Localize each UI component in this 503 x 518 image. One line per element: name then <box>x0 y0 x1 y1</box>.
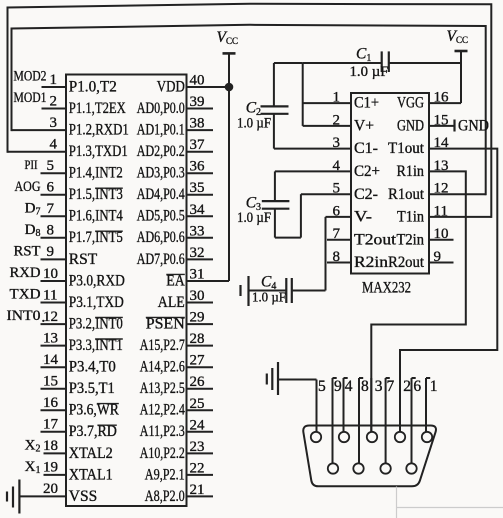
svg-text:P3.0,RXD: P3.0,RXD <box>69 272 125 289</box>
wire U2 pin12 R1out stub to rail <box>429 193 486 195</box>
junction dot VDD-Vcc <box>225 83 234 92</box>
svg-text:7: 7 <box>333 226 341 242</box>
U2 left label R2in <box>354 254 388 271</box>
svg-text:13: 13 <box>43 330 58 346</box>
U2 right label R1out <box>388 186 425 203</box>
U2 pin 1 number <box>333 90 341 106</box>
svg-text:8: 8 <box>47 223 55 239</box>
wire U2 pin13 R1in to DB9 pin3 <box>371 171 466 431</box>
U2 pin 2 number <box>333 112 341 128</box>
U1 pin 36 wire+label <box>187 159 214 175</box>
power Vcc (right) symbol <box>447 28 468 51</box>
J1 pin 2 wire+label <box>400 378 411 432</box>
ground (VSS) <box>7 480 19 514</box>
svg-text:R1in: R1in <box>397 163 425 180</box>
svg-text:14: 14 <box>43 352 59 368</box>
svg-text:6: 6 <box>333 203 341 219</box>
svg-text:AD5,P0.5: AD5,P0.5 <box>137 208 185 225</box>
svg-text:12: 12 <box>434 181 449 197</box>
svg-text:36: 36 <box>190 159 206 175</box>
U1 right label A12,P2.4 <box>140 402 185 419</box>
J1 pin 6 wire+label <box>412 378 422 463</box>
svg-text:1: 1 <box>430 378 438 395</box>
svg-text:3: 3 <box>375 378 383 395</box>
svg-text:C2+: C2+ <box>354 163 380 180</box>
svg-text:9: 9 <box>434 249 442 265</box>
svg-text:AD1,P0.1: AD1,P0.1 <box>137 122 185 139</box>
svg-text:16: 16 <box>43 395 59 411</box>
svg-text:A14,P2.6: A14,P2.6 <box>140 359 185 376</box>
U2 pin 11 number <box>434 203 448 219</box>
svg-text:ALE: ALE <box>158 294 185 311</box>
svg-text:1.0 µF: 1.0 µF <box>237 210 271 226</box>
connector J1 DB9 shell <box>303 426 436 487</box>
IC U2 MAX232 body <box>351 93 429 274</box>
U1 pin 5 wire+label <box>25 158 67 174</box>
svg-text:C2-: C2- <box>354 186 378 203</box>
wire MAX232 pin6 V- <box>326 217 352 291</box>
svg-text:RST: RST <box>69 251 98 268</box>
U1 pin 9 wire+label <box>14 243 67 260</box>
U2 left label C2+ <box>354 163 380 180</box>
U2 pin 9 number <box>434 249 442 265</box>
U1 right label A11,P2.3 <box>140 423 185 440</box>
svg-text:AD4,P0.4: AD4,P0.4 <box>137 186 185 203</box>
svg-text:30: 30 <box>190 288 205 304</box>
svg-text:14: 14 <box>434 135 450 151</box>
svg-text:24: 24 <box>190 417 206 433</box>
U1 pin 16 wire+label <box>41 395 67 411</box>
U1 pin 20 wire+label <box>20 481 66 497</box>
U2 pin 6 number <box>333 203 341 219</box>
U2 pin 3 number <box>333 135 341 151</box>
U1 right label AD6,P0.6 <box>137 229 185 246</box>
U1 pin 37 wire+label <box>187 137 214 153</box>
wire U2 pin10 T2in stub <box>429 239 454 241</box>
svg-text:P3.5,T1: P3.5,T1 <box>69 380 115 397</box>
svg-text:P1.3,TXD1: P1.3,TXD1 <box>69 143 128 160</box>
wire U2 pin14 T1out to DB9 pin2 <box>400 149 497 432</box>
U1 pin 29 wire+label <box>187 310 214 326</box>
U1 pin 35 wire+label <box>187 180 214 196</box>
wire MAX232 pin3 C1- <box>274 148 351 150</box>
wire MAX232 pin8 R2in stub <box>327 262 351 264</box>
svg-text:A8,P2.0: A8,P2.0 <box>145 488 185 505</box>
svg-text:7: 7 <box>387 378 395 395</box>
U1 left label P3.2,INT0 <box>69 315 123 332</box>
svg-text:A13,P2.5: A13,P2.5 <box>140 380 185 397</box>
U1 right label A8,P2.0 <box>145 488 185 505</box>
U1 pin 12 wire+label <box>7 308 67 325</box>
svg-text:V+: V+ <box>354 118 374 135</box>
U1 right label PSEN <box>146 315 185 332</box>
capacitor C3 <box>237 194 301 237</box>
U1 pin 26 wire+label <box>187 374 214 390</box>
wire U2 pin9 R2out stub <box>429 262 454 264</box>
svg-text:T1in: T1in <box>397 209 424 226</box>
U1 pin 22 wire+label <box>187 460 214 476</box>
U2 pin 15 number <box>434 112 449 128</box>
U2 left label C1- <box>354 140 378 157</box>
svg-text:VSS: VSS <box>69 488 97 505</box>
U1 pin 27 wire+label <box>187 353 214 369</box>
U1 right label AD3,P0.3 <box>137 165 185 182</box>
U1 left label P1.4,INT2 <box>69 165 123 182</box>
wire net TXD1: pin4 rail across top to MAX232 T1in <box>8 4 492 217</box>
U2 left label T2out <box>354 231 397 248</box>
svg-text:AOG: AOG <box>15 179 41 195</box>
U1 left label P3.0,RXD <box>69 272 125 289</box>
svg-text:35: 35 <box>190 180 205 196</box>
U1 right label AD1,P0.1 <box>137 122 185 139</box>
U1 pin 18 wire+label <box>25 437 66 454</box>
svg-text:5: 5 <box>47 158 55 174</box>
U1 left label P1.5,INT3 <box>69 186 123 203</box>
J1 pin 7 wire+label <box>386 378 395 463</box>
svg-text:3: 3 <box>333 135 341 151</box>
J1 pin 8 wire+label <box>359 378 369 463</box>
svg-text:37: 37 <box>190 137 206 153</box>
U1 pin 24 wire+label <box>187 417 214 433</box>
U1 right label A10,P2.2 <box>140 445 185 462</box>
U1 right label A13,P2.5 <box>140 380 185 397</box>
svg-text:T1out: T1out <box>388 140 425 157</box>
U1 left label P1.0,T2 <box>69 78 117 95</box>
wire U2 pin15 GND <box>429 125 454 127</box>
svg-text:18: 18 <box>43 438 58 454</box>
wire MAX232 pin5 C2- <box>301 193 351 195</box>
J1 pin 4 wire+label <box>344 378 353 432</box>
svg-text:1.0 µF: 1.0 µF <box>237 116 271 132</box>
U1 pin 23 wire+label <box>187 439 214 455</box>
svg-text:11: 11 <box>434 203 448 219</box>
svg-text:AD7,P0.6: AD7,P0.6 <box>137 251 185 268</box>
J1 pin 5 wire+label <box>317 378 327 432</box>
svg-text:4: 4 <box>333 158 341 174</box>
svg-text:26: 26 <box>190 374 206 390</box>
svg-text:3: 3 <box>50 115 58 131</box>
svg-text:AD2,P0.2: AD2,P0.2 <box>137 143 185 160</box>
svg-text:6: 6 <box>413 378 421 395</box>
U1 pin 33 wire+label <box>187 223 214 239</box>
U1 pin 25 wire+label <box>187 396 214 412</box>
U2 right label T1out <box>388 140 425 157</box>
svg-text:AD3,P0.3: AD3,P0.3 <box>137 165 185 182</box>
svg-text:PII: PII <box>25 158 38 172</box>
svg-text:T2out: T2out <box>354 231 397 248</box>
wire U2 pin11 T1in stub to rail <box>429 216 491 218</box>
svg-text:A11,P2.3: A11,P2.3 <box>140 423 185 440</box>
U1 pin 17 wire+label <box>41 417 67 433</box>
U1 right label A15,P2.7 <box>140 337 185 354</box>
wire MAX232 pin2 V+ <box>303 125 351 127</box>
svg-text:XTAL2: XTAL2 <box>69 445 113 462</box>
U1 right label A9,P2.1 <box>145 466 185 483</box>
svg-text:20: 20 <box>43 481 58 497</box>
svg-text:AD6,P0.6: AD6,P0.6 <box>137 229 185 246</box>
svg-text:40: 40 <box>190 73 205 89</box>
wire MAX232 pin7 T2out stub <box>327 239 351 241</box>
svg-text:16: 16 <box>434 90 450 106</box>
U1 pin 7 wire+label <box>25 200 66 217</box>
svg-text:R2out: R2out <box>388 254 425 271</box>
wire net RXD1: pin3 rail across top to MAX232 R1out <box>12 25 486 194</box>
svg-text:9: 9 <box>334 378 342 395</box>
svg-text:23: 23 <box>190 439 205 455</box>
svg-text:1: 1 <box>333 90 341 106</box>
U2 pin 4 number <box>333 158 341 174</box>
U1 left label P3.4,T0 <box>69 359 116 376</box>
svg-text:P3.4,T0: P3.4,T0 <box>69 359 116 376</box>
svg-text:AD0,P0.0: AD0,P0.0 <box>137 100 185 117</box>
U2 left label V- <box>354 209 372 226</box>
svg-text:C1+: C1+ <box>354 95 379 112</box>
U2 pin 14 number <box>434 135 450 151</box>
IC U1 8051 body <box>66 75 187 507</box>
U2 right label VGG <box>397 95 424 112</box>
U1 left label P3.5,T1 <box>69 380 115 397</box>
U2 pin 8 number <box>333 249 341 265</box>
svg-text:32: 32 <box>190 245 205 261</box>
svg-text:38: 38 <box>190 116 205 132</box>
svg-text:MAX232: MAX232 <box>362 280 411 297</box>
U1 pin 8 wire+label <box>25 222 66 239</box>
wire C1+/C2 top rail <box>274 62 303 64</box>
U2 pin 7 number <box>333 226 341 242</box>
U2 pin 16 number <box>434 90 450 106</box>
svg-text:1.0 µF: 1.0 µF <box>252 290 286 305</box>
U1 pin 34 wire+label <box>187 202 214 218</box>
svg-text:VDD: VDD <box>157 78 185 95</box>
U1 left label P1.2,RXD1 <box>69 122 129 139</box>
ground (DB9 pin5) <box>267 362 317 395</box>
J1 pin 9 wire+label <box>333 378 343 463</box>
artifact faint lines <box>397 487 503 518</box>
svg-text:T2in: T2in <box>397 231 425 248</box>
J1 bottom row holes (pins 9,8,7,6) <box>328 463 417 473</box>
svg-text:33: 33 <box>190 223 205 239</box>
svg-text:12: 12 <box>43 309 58 325</box>
svg-text:P1.4,INT2: P1.4,INT2 <box>69 165 123 182</box>
U2 pin 10 number <box>434 226 449 242</box>
svg-text:21: 21 <box>190 482 205 498</box>
svg-text:C1-: C1- <box>354 140 378 157</box>
U1 pin 1 wire+label <box>14 69 67 88</box>
svg-text:10: 10 <box>43 266 58 282</box>
svg-text:GND: GND <box>458 118 489 135</box>
svg-text:19: 19 <box>43 460 58 476</box>
U2 left label C1+ <box>354 95 379 112</box>
U1 pin 21 wire+label <box>187 482 214 498</box>
svg-text:17: 17 <box>43 417 59 433</box>
U1 right label AD4,P0.4 <box>137 186 185 203</box>
svg-text:4: 4 <box>50 137 58 153</box>
svg-text:GND: GND <box>397 118 424 135</box>
U1 right label AD5,P0.5 <box>137 208 185 225</box>
U1 left label P3.1,TXD <box>69 294 124 311</box>
U1 pin 10 wire+label <box>10 265 67 282</box>
U1 right label AD2,P0.2 <box>137 143 185 160</box>
svg-text:22: 22 <box>190 460 205 476</box>
svg-text:10: 10 <box>434 226 449 242</box>
wire MAX232 pin4 C2+ <box>275 171 351 201</box>
ground (C4) <box>241 276 249 306</box>
U2 right label T2in <box>397 231 425 248</box>
svg-text:P1.1,T2EX: P1.1,T2EX <box>69 100 126 117</box>
U1 pin 30 wire+label <box>187 288 214 304</box>
svg-text:6: 6 <box>47 180 55 196</box>
svg-text:39: 39 <box>190 94 205 110</box>
U1 left label P3.7,RD <box>69 423 117 440</box>
svg-text:MOD2: MOD2 <box>14 69 47 85</box>
svg-text:R2in: R2in <box>354 254 388 271</box>
svg-text:A9,P2.1: A9,P2.1 <box>145 466 185 483</box>
svg-text:P3.1,TXD: P3.1,TXD <box>69 294 124 311</box>
J1 pin 3 wire+label <box>371 378 383 432</box>
svg-text:29: 29 <box>190 310 205 326</box>
svg-text:4: 4 <box>345 378 353 395</box>
U1 right label VDD <box>157 78 185 95</box>
svg-text:1.0 µF: 1.0 µF <box>350 64 389 80</box>
ground GND (pin15) <box>455 118 490 135</box>
svg-text:1: 1 <box>50 72 58 88</box>
U2 left label V+ <box>354 118 374 135</box>
U1 pin 13 wire+label <box>41 330 67 346</box>
U1 right label ALE <box>158 294 185 311</box>
U1 left label P1.1,T2EX <box>69 100 126 117</box>
wire U2 pin16 VGG to Vcc <box>429 51 461 103</box>
U2 pin 12 number <box>434 181 449 197</box>
U1 right label AD7,P0.6 <box>137 251 185 268</box>
svg-text:P1.6,INT4: P1.6,INT4 <box>69 208 123 225</box>
U1 pin 15 wire+label <box>41 374 67 390</box>
U1 left label P3.6,WR <box>69 402 120 419</box>
svg-text:8: 8 <box>333 249 341 265</box>
J1 top row holes (pins 5,4,3,2,1) <box>311 432 432 442</box>
svg-text:5: 5 <box>318 378 326 395</box>
U1 left label P3.3,INT1 <box>69 337 123 354</box>
U1 pin 39 wire+label <box>187 94 214 110</box>
svg-text:R1out: R1out <box>388 186 425 203</box>
U1 pin 28 wire+label <box>187 331 214 347</box>
svg-text:A10,P2.2: A10,P2.2 <box>140 445 185 462</box>
svg-text:9: 9 <box>47 244 55 260</box>
svg-text:2: 2 <box>333 112 341 128</box>
U1 left label VSS <box>69 488 97 505</box>
U2 label MAX232 <box>362 280 411 297</box>
U1 left label P1.6,INT4 <box>69 208 123 225</box>
svg-text:13: 13 <box>434 158 449 174</box>
U1 left label P1.3,TXD1 <box>69 143 128 160</box>
capacitor C2 <box>237 63 289 149</box>
svg-text:A15,P2.7: A15,P2.7 <box>140 337 185 354</box>
svg-text:XTAL1: XTAL1 <box>69 466 113 483</box>
J1 pin 1 wire+label <box>426 378 438 432</box>
svg-text:7: 7 <box>47 201 55 217</box>
power Vcc (left) symbol <box>217 29 238 281</box>
svg-text:2: 2 <box>50 93 58 109</box>
U1 left label RST <box>69 251 98 268</box>
svg-text:8: 8 <box>361 378 369 395</box>
svg-text:27: 27 <box>190 353 206 369</box>
U1 pin 2 wire+label <box>14 90 67 109</box>
svg-text:15: 15 <box>434 112 449 128</box>
capacitor C1 <box>303 46 461 81</box>
U1 pin 3 wire+label <box>12 115 67 131</box>
svg-text:25: 25 <box>190 396 205 412</box>
U1 right label AD0,P0.0 <box>137 100 185 117</box>
svg-text:TXD: TXD <box>10 287 41 303</box>
U1 right label A14,P2.6 <box>140 359 185 376</box>
U1 pin 6 wire+label <box>15 179 67 196</box>
U2 pin 5 number <box>333 181 341 197</box>
U1 left label P1.7,INT5 <box>69 229 123 246</box>
U1 pin 4 wire+label <box>8 137 67 153</box>
U1 pin 11 wire+label <box>10 287 67 304</box>
svg-text:A12,P2.4: A12,P2.4 <box>140 402 185 419</box>
U1 pin 38 wire+label <box>187 116 214 132</box>
svg-text:VGG: VGG <box>397 95 424 112</box>
U2 pin 13 number <box>434 158 449 174</box>
U1 left label XTAL1 <box>69 466 113 483</box>
svg-text:P1.2,RXD1: P1.2,RXD1 <box>69 122 129 139</box>
svg-text:INT0: INT0 <box>7 308 41 324</box>
svg-text:11: 11 <box>43 287 57 303</box>
svg-text:15: 15 <box>43 374 58 390</box>
svg-text:RST: RST <box>14 243 41 259</box>
U2 right label R1in <box>397 163 425 180</box>
svg-text:28: 28 <box>190 331 205 347</box>
capacitor C4 <box>249 274 326 305</box>
U2 right label R2out <box>388 254 425 271</box>
U2 right label T1in <box>397 209 424 226</box>
U1 pin 32 wire+label <box>187 245 214 261</box>
svg-text:5: 5 <box>333 181 341 197</box>
svg-text:31: 31 <box>190 267 205 283</box>
svg-text:2: 2 <box>403 378 411 395</box>
U1 left label XTAL2 <box>69 445 113 462</box>
svg-text:P1.0,T2: P1.0,T2 <box>69 78 117 95</box>
U1 pin 40 wire+label <box>187 73 230 89</box>
U1 right label EA <box>166 272 185 289</box>
U1 pin 14 wire+label <box>41 352 67 368</box>
U1 pin 31 wire+label <box>187 267 230 283</box>
svg-text:34: 34 <box>190 202 206 218</box>
U2 left label C2- <box>354 186 378 203</box>
svg-text:V-: V- <box>354 209 372 226</box>
svg-text:MOD1: MOD1 <box>14 90 47 106</box>
U1 pin 19 wire+label <box>25 459 66 476</box>
U2 right label GND <box>397 118 424 135</box>
wire MAX232 pin1 C1+ <box>303 63 351 126</box>
svg-text:RXD: RXD <box>10 265 41 281</box>
